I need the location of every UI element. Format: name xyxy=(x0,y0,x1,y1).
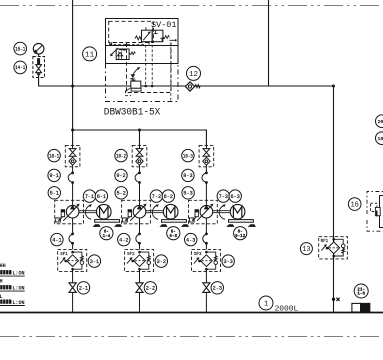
pressure gauge 15-1 xyxy=(33,43,44,57)
balloon 16 xyxy=(348,198,361,211)
return drop wire xyxy=(333,86,335,313)
balloon 9-1 xyxy=(48,169,60,181)
suction filter SF3 xyxy=(192,249,221,282)
main pressure header wire xyxy=(39,76,334,86)
svg-text:SV-01: SV-01 xyxy=(151,21,177,30)
svg-text:7-3: 7-3 xyxy=(219,194,228,200)
svg-text:DBW30B1-5X: DBW30B1-5X xyxy=(104,107,161,119)
flexible hose 4-2 xyxy=(136,233,141,250)
riser pipe A xyxy=(72,0,74,86)
DBW30B1-5X relief valve block outline xyxy=(106,19,179,102)
motor base 1 xyxy=(93,220,123,227)
suction branch wire xyxy=(73,86,207,145)
svg-text:11: 11 xyxy=(85,52,95,60)
balloon 2-3 xyxy=(211,282,223,294)
balloon 19 (clipped) xyxy=(376,132,383,145)
gauge isolator valve 14-1 xyxy=(33,57,45,78)
svg-text:L:ON: L:ON xyxy=(12,270,24,276)
flexible hose 9-3 xyxy=(202,172,208,206)
pilot relief valve xyxy=(109,42,135,60)
level switch text L xyxy=(0,294,25,306)
motor base 3 xyxy=(226,220,256,227)
svg-text:2-3: 2-3 xyxy=(213,286,222,292)
balloon 7-2 xyxy=(150,190,162,202)
flexible hose 4-3 xyxy=(203,233,208,250)
svg-text:15-1: 15-1 xyxy=(15,46,25,52)
svg-text:5-3: 5-3 xyxy=(183,191,192,197)
tank top line xyxy=(0,312,383,314)
electric motor M1 xyxy=(97,204,112,219)
pilot stage dashed box xyxy=(109,21,154,42)
svg-text:H: H xyxy=(0,279,3,285)
balloon 20 (clipped) xyxy=(376,115,383,128)
svg-text:SF2: SF2 xyxy=(127,253,135,257)
svg-text:2000L: 2000L xyxy=(275,306,299,314)
svg-text:1: 1 xyxy=(264,301,268,309)
balloon 6-3 xyxy=(229,190,241,202)
svg-text:9-3: 9-3 xyxy=(183,173,192,179)
svg-text:9-1: 9-1 xyxy=(49,173,58,179)
balloon 10-1 xyxy=(48,149,60,161)
svg-text:3-1: 3-1 xyxy=(90,259,99,265)
svg-text:6-3: 6-3 xyxy=(231,194,240,200)
motor base 2 xyxy=(159,220,189,227)
svg-text:20-: 20- xyxy=(378,119,383,125)
svg-text:7-1: 7-1 xyxy=(85,194,94,200)
shutoff/check valve unit 10-1 xyxy=(65,145,80,172)
svg-text:SF1: SF1 xyxy=(60,253,68,257)
solenoid vent dashed box xyxy=(127,43,172,93)
svg-text:4-3: 4-3 xyxy=(186,237,195,243)
svg-text:10-1: 10-1 xyxy=(49,153,59,159)
balloon 14-1 xyxy=(14,61,27,74)
variable pump P3 xyxy=(197,204,213,234)
balloon 4-3 xyxy=(185,233,197,245)
svg-text:7-2: 7-2 xyxy=(152,194,161,200)
svg-text:2-2: 2-2 xyxy=(146,286,155,292)
svg-text:4-1: 4-1 xyxy=(52,237,61,243)
svg-text:14-1: 14-1 xyxy=(15,65,25,71)
svg-text:5-1: 5-1 xyxy=(50,191,59,197)
balloon 9-2 xyxy=(115,169,127,181)
svg-text:L:ON: L:ON xyxy=(12,285,24,291)
svg-text:16: 16 xyxy=(350,202,358,210)
svg-text:9-12: 9-12 xyxy=(235,235,246,239)
pilot drain dashed lines xyxy=(109,43,171,102)
electric motor M2 xyxy=(163,204,178,219)
svg-text:SF3: SF3 xyxy=(194,253,202,257)
case drain valve 2 xyxy=(123,210,132,222)
balloon 6-2 xyxy=(162,190,174,202)
return filter RF1 xyxy=(319,237,348,259)
balloon 7-1 xyxy=(83,190,95,202)
balloon 4-1 xyxy=(51,233,63,245)
balloon 3-1 xyxy=(88,255,100,267)
case drain valve 3 xyxy=(190,210,199,222)
pump dashed enclosure 3 xyxy=(189,200,218,224)
balloon 10-3 xyxy=(182,149,194,161)
junction dots xyxy=(71,85,335,132)
svg-text:L:ON: L:ON xyxy=(12,300,24,306)
shutoff/check valve unit 10-3 xyxy=(199,145,214,172)
svg-text:1-4: 1-4 xyxy=(103,235,111,239)
solenoid valve SV-01 xyxy=(135,27,177,45)
balloon 12 xyxy=(187,66,201,80)
variable pump P1 xyxy=(63,204,79,234)
shutoff valve 2-2 xyxy=(136,283,143,313)
coupling shaft 3 xyxy=(213,211,231,213)
balloon 3-3 xyxy=(222,255,234,267)
balloon 4-2 xyxy=(118,233,130,245)
flexible hose 4-1 xyxy=(69,233,74,250)
balloon 1 (tank) xyxy=(259,296,273,310)
pump dashed enclosure 1 xyxy=(55,200,84,224)
balloon 8 group 1 xyxy=(100,227,113,240)
balloon 10-2 xyxy=(115,149,127,161)
check valve 12 xyxy=(185,82,200,91)
shutoff valve 2-3 xyxy=(203,283,210,313)
shutoff valve 2-1 xyxy=(69,283,76,313)
svg-text:9-2: 9-2 xyxy=(116,173,125,179)
balloon 3-2 xyxy=(155,255,167,267)
suction filter SF1 xyxy=(58,249,87,282)
balloon 2-1 xyxy=(77,282,89,294)
flexible hose 9-1 xyxy=(68,172,74,206)
balloon 2-2 xyxy=(144,282,156,294)
balloon 11 xyxy=(83,47,97,61)
svg-text:5-2: 5-2 xyxy=(117,191,126,197)
coupling shaft 2 xyxy=(146,211,164,213)
riser pipe B xyxy=(268,0,270,86)
balloon 8 group 2 xyxy=(167,227,180,240)
electric motor M3 xyxy=(230,204,245,219)
svg-text:10-2: 10-2 xyxy=(116,153,126,159)
svg-text:1-6: 1-6 xyxy=(357,292,365,297)
balloon 5-2 xyxy=(115,187,127,199)
svg-text:13: 13 xyxy=(302,246,310,254)
case drain valve 1 xyxy=(56,210,65,222)
svg-text:3-2: 3-2 xyxy=(157,259,166,265)
svg-text:6-1: 6-1 xyxy=(97,194,106,200)
balloon 8 group 3 xyxy=(234,227,247,240)
level switch text HH xyxy=(0,263,25,276)
svg-text:12: 12 xyxy=(189,71,199,79)
balloon 7-3 xyxy=(217,190,229,202)
balloon 13 xyxy=(300,243,312,255)
pump dashed enclosure 2 xyxy=(122,200,151,224)
bottom boundary dash-dot line xyxy=(0,336,383,338)
rotation arrow 2 xyxy=(152,204,159,219)
rotation arrow 3 xyxy=(219,204,226,219)
suction filter SF2 xyxy=(125,249,154,282)
balloon 5-1 xyxy=(48,187,60,199)
main relief cartridge xyxy=(125,67,141,96)
balloon 15-1 xyxy=(14,42,27,55)
balloon 6-1 xyxy=(95,190,107,202)
svg-text:4-2: 4-2 xyxy=(119,237,128,243)
level switch text H xyxy=(0,279,25,292)
test point on return line xyxy=(332,298,340,301)
svg-text:2-1: 2-1 xyxy=(79,286,88,292)
top boundary dash-dot line xyxy=(0,5,383,7)
svg-text:RF1: RF1 xyxy=(321,240,329,244)
cooler unit 16 (clipped) xyxy=(367,192,383,232)
balloon 5-3 xyxy=(182,187,194,199)
shutoff/check valve unit 10-2 xyxy=(132,145,147,172)
balloon 21-1-6 xyxy=(354,284,368,298)
svg-text:10-3: 10-3 xyxy=(183,153,193,159)
svg-text:L: L xyxy=(0,294,3,300)
svg-text:5-8: 5-8 xyxy=(170,235,178,239)
tank heater 21 xyxy=(352,303,370,312)
coupling shaft 1 xyxy=(79,211,97,213)
svg-text:3-3: 3-3 xyxy=(224,259,233,265)
svg-text:6-2: 6-2 xyxy=(164,194,173,200)
svg-text:19-: 19- xyxy=(378,136,383,142)
flexible hose 9-2 xyxy=(135,172,141,206)
svg-text:HH: HH xyxy=(0,263,6,269)
rotation arrow 1 xyxy=(85,204,92,219)
balloon 9-3 xyxy=(182,169,194,181)
variable pump P2 xyxy=(130,204,146,234)
